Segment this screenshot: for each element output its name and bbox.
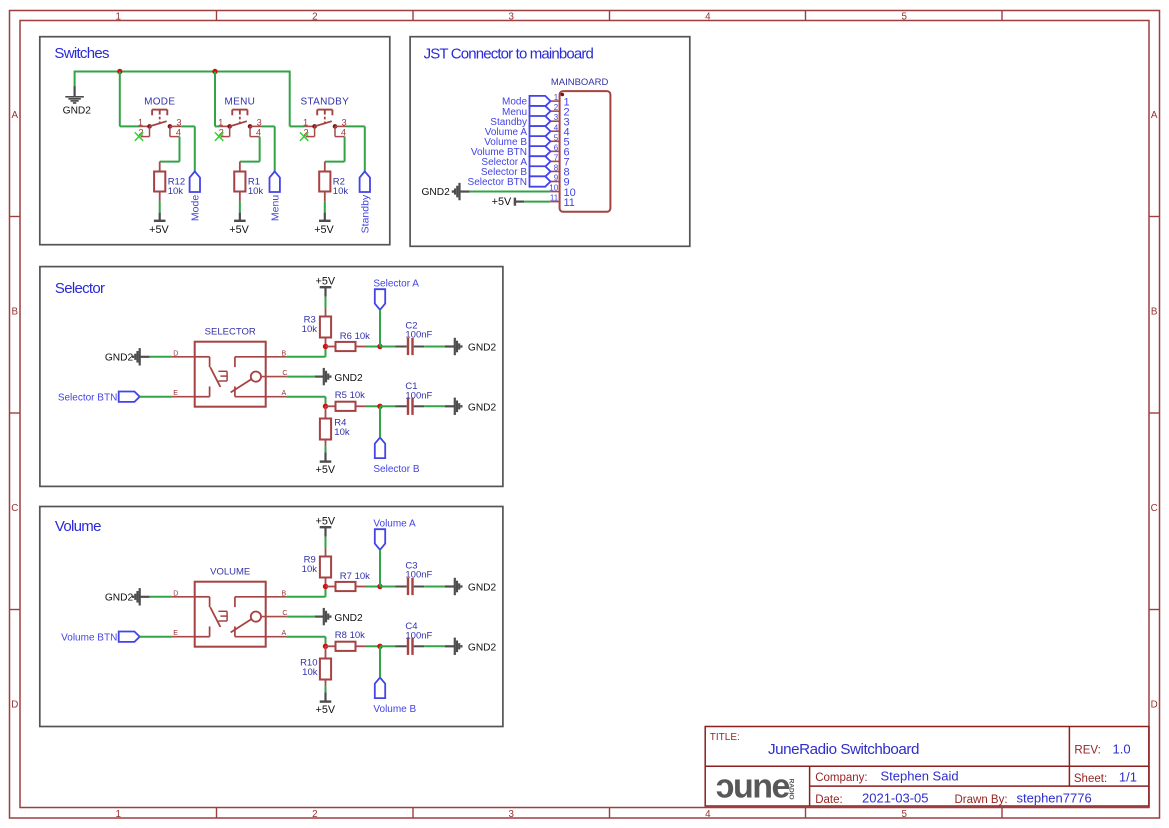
switch MODE button cap <box>152 109 167 111</box>
svg-text:Volume B: Volume B <box>373 704 416 715</box>
svg-text:2: 2 <box>312 809 317 820</box>
svg-text:10: 10 <box>549 184 558 193</box>
power +5V R1 <box>239 213 241 221</box>
section box JST Connector <box>410 37 690 247</box>
wire drop to MODE <box>119 72 121 127</box>
switch STANDBY pin 2 bracket <box>314 126 316 136</box>
net label Selector A flag <box>530 156 551 166</box>
VOLUME pin D line <box>172 596 195 598</box>
wire +5V to R3 <box>325 297 327 308</box>
svg-text:GND2: GND2 <box>105 352 134 363</box>
svg-text:11: 11 <box>550 194 559 203</box>
switch MENU button cap <box>232 109 247 111</box>
SELECTOR internal: wiper lever <box>231 379 252 392</box>
svg-text:Stephen Said: Stephen Said <box>881 769 959 784</box>
net label Mode flag <box>530 96 551 106</box>
svg-text:B: B <box>282 590 287 597</box>
resistor R7 <box>326 586 336 588</box>
wire C1 to GND2 <box>424 405 445 407</box>
VOLUME pin A line <box>266 636 287 638</box>
power +5V bottom of R4 <box>324 452 326 461</box>
junction bottom-right <box>377 644 382 649</box>
svg-text:2: 2 <box>312 11 317 22</box>
VOLUME internal: pin B bracket <box>235 596 266 598</box>
svg-text:GND2: GND2 <box>468 642 497 653</box>
svg-text:+5V: +5V <box>229 224 249 236</box>
svg-text:Date:: Date: <box>815 794 843 806</box>
svg-text:R7 10k: R7 10k <box>340 571 370 582</box>
resistor R9 <box>325 547 327 556</box>
SELECTOR internal: wiper circle <box>251 372 261 382</box>
wire R1 to +5V <box>239 202 241 213</box>
resistor R12 <box>159 162 161 172</box>
resistor R6 <box>326 346 336 348</box>
wire drop to MENU <box>214 72 216 127</box>
svg-text:+5V: +5V <box>316 464 336 476</box>
svg-text:GND2: GND2 <box>334 373 363 384</box>
wire GND2 to VOLUME pin D <box>140 596 150 598</box>
svg-text:REV:: REV: <box>1074 744 1100 756</box>
svg-text:Selector: Selector <box>55 280 105 297</box>
VOLUME internal: push-button contact <box>226 611 228 621</box>
ground GND2 at VOLUME pin C <box>323 608 325 625</box>
wire R12 pin4 to resistor <box>179 137 181 162</box>
svg-text:10k: 10k <box>302 324 318 335</box>
svg-text:JST Connector to mainboard: JST Connector to mainboard <box>424 45 594 62</box>
net label Mode <box>190 171 200 192</box>
svg-text:B: B <box>1151 307 1158 318</box>
net label Volume A flag <box>530 126 551 136</box>
svg-text:10k: 10k <box>168 186 184 197</box>
svg-text:Volume A: Volume A <box>373 518 416 529</box>
ground GND2 at C4 <box>454 638 456 655</box>
junction top-left <box>323 344 328 349</box>
wire R4 to +5V <box>325 446 327 452</box>
title block rev/sheet cell divider <box>1068 727 1070 787</box>
svg-text:Drawn By:: Drawn By: <box>955 794 1008 806</box>
svg-text:E: E <box>173 390 178 397</box>
SELECTOR internal: pin D bracket <box>195 356 210 358</box>
switch MENU pin 4 bracket <box>249 126 251 136</box>
VOLUME internal: push-button lever <box>210 607 220 627</box>
section box Selector <box>40 267 503 487</box>
svg-text:MODE: MODE <box>144 97 175 108</box>
VOLUME pin C line <box>261 616 287 618</box>
frame row ticks left <box>10 216 21 218</box>
ground GND2 at SELECTOR pin C <box>323 368 325 385</box>
power +5V R12 <box>159 213 161 221</box>
resistor R1 <box>239 162 241 172</box>
SELECTOR internal: pin A bracket <box>235 396 266 398</box>
connector pin 11 line <box>550 201 559 203</box>
svg-text:10k: 10k <box>248 186 264 197</box>
junction bottom-left <box>323 404 328 409</box>
SELECTOR pin D line <box>172 356 195 358</box>
ground GND2 at VOLUME pin D <box>139 588 141 605</box>
ground GND2 at C3 <box>454 578 456 595</box>
VOLUME internal: pin A bracket <box>235 636 266 638</box>
svg-text:Selector BTN: Selector BTN <box>58 393 117 404</box>
wire pin3 to Standby flag <box>347 125 365 127</box>
svg-text:5: 5 <box>554 133 559 142</box>
svg-text:5: 5 <box>901 11 907 22</box>
svg-text:2021-03-05: 2021-03-05 <box>862 791 929 806</box>
wire SELECTOR pin A down to junction <box>286 396 325 398</box>
svg-text:A: A <box>282 630 287 637</box>
svg-text:10k: 10k <box>302 667 318 678</box>
switch STANDBY contact dot left <box>312 124 317 129</box>
SELECTOR pin C line <box>261 376 287 378</box>
ground GND2 at C1 <box>454 398 456 415</box>
resistor R8 <box>326 645 336 647</box>
svg-text:GND2: GND2 <box>468 402 497 413</box>
svg-text:Sheet:: Sheet: <box>1074 773 1107 785</box>
svg-text:Selector A: Selector A <box>373 278 419 289</box>
net label Selector BTN flag <box>530 176 551 186</box>
switch MENU pin 1 <box>220 125 230 127</box>
svg-text:Standby: Standby <box>360 194 372 233</box>
svg-text:stephen7776: stephen7776 <box>1017 791 1092 806</box>
svg-text:10k: 10k <box>333 186 349 197</box>
wire R2 to +5V <box>324 202 326 213</box>
svg-text:4: 4 <box>176 127 181 137</box>
capacitor C1 <box>380 405 395 407</box>
net label Selector BTN flag <box>119 392 140 402</box>
switch MODE pin 1 <box>140 125 150 127</box>
svg-text:+5V: +5V <box>316 704 336 716</box>
svg-text:A: A <box>1151 110 1158 121</box>
section box Switches <box>40 37 390 245</box>
switch STANDBY pin 4 bracket <box>334 126 336 136</box>
net label Standby <box>360 171 370 192</box>
svg-text:1.0: 1.0 <box>1113 741 1131 756</box>
svg-text:Selector BTN: Selector BTN <box>468 177 527 188</box>
svg-text:5: 5 <box>901 809 907 820</box>
switch STANDBY actuator stem (dashed) <box>324 110 326 115</box>
VOLUME internal: wiper circle <box>251 612 261 622</box>
wire SELECTOR pin C to GND2 <box>287 376 315 378</box>
switch STANDBY pin 2 no-connect X <box>300 132 308 140</box>
svg-text:+5V: +5V <box>316 275 336 287</box>
svg-text:100nF: 100nF <box>405 390 432 401</box>
SELECTOR internal: push-button contact <box>226 371 228 381</box>
wire Volume A down to junction <box>379 550 381 587</box>
wire R2 pin4 to resistor <box>344 137 346 162</box>
svg-text:Mode: Mode <box>190 195 202 221</box>
junction bottom-left <box>323 644 328 649</box>
SELECTOR pin B line <box>266 356 287 358</box>
wire +5V to R9 <box>325 537 327 548</box>
wire VOLUME pin A down to junction <box>286 636 325 638</box>
svg-text:1: 1 <box>115 809 120 820</box>
wire GND drop left <box>74 71 76 87</box>
svg-text:1/1: 1/1 <box>1119 770 1137 785</box>
svg-text:GND2: GND2 <box>421 187 450 198</box>
SELECTOR pin E line <box>172 396 195 398</box>
svg-text:B: B <box>12 307 19 318</box>
SELECTOR internal: pin B bracket <box>235 356 266 358</box>
ground GND2 at SELECTOR pin D <box>139 348 141 365</box>
net label Menu <box>270 171 280 192</box>
wire pin3 to Mode flag <box>181 125 194 127</box>
june logo <box>716 768 795 806</box>
title block border <box>705 727 1149 807</box>
junction at MODE drop <box>117 69 122 74</box>
wire R12 to +5V <box>159 202 161 213</box>
connector pin 4 line <box>550 130 559 132</box>
switch MODE lever <box>150 121 167 126</box>
connector pin 10 line <box>550 191 559 193</box>
switch MODE pin 3 <box>170 125 182 127</box>
resistor R3 <box>325 307 327 316</box>
svg-text:8: 8 <box>554 163 559 172</box>
junction bottom-right <box>377 404 382 409</box>
svg-text:+5V: +5V <box>492 196 512 208</box>
svg-text:TITLE:: TITLE: <box>710 732 740 743</box>
svg-text:3: 3 <box>257 117 262 127</box>
component SELECTOR body <box>195 342 266 407</box>
svg-text:Selector B: Selector B <box>373 464 419 475</box>
switch MODE contact dot right <box>168 124 173 129</box>
wire C2 to GND2 <box>424 346 445 348</box>
svg-text:1: 1 <box>554 93 559 102</box>
svg-text:4: 4 <box>705 11 711 22</box>
connector pin 1 line <box>550 100 559 102</box>
svg-text:1: 1 <box>115 11 120 22</box>
connector pin 8 line <box>550 170 559 172</box>
junction top-right <box>377 344 382 349</box>
svg-text:10k: 10k <box>334 427 350 438</box>
switch MENU pin 2 no-connect X <box>215 132 223 140</box>
junction at MENU drop <box>212 69 217 74</box>
wire VOLUME pin B up to junction <box>286 596 325 598</box>
switch STANDBY pin 1 <box>305 125 315 127</box>
junction top-left <box>323 584 328 589</box>
svg-text:3: 3 <box>342 117 347 127</box>
wire Selector BTN to SELECTOR pin E <box>140 396 172 398</box>
connector MAINBOARD pin1 marker <box>561 93 565 97</box>
VOLUME pin B line <box>266 596 287 598</box>
svg-text:R5 10k: R5 10k <box>335 390 365 401</box>
wire GND2 to SELECTOR pin D <box>140 356 150 358</box>
svg-text:E: E <box>173 630 178 637</box>
net label Volume BTN flag <box>530 146 551 156</box>
svg-text:3: 3 <box>176 117 181 127</box>
wire SELECTOR pin B up to junction <box>286 356 325 358</box>
wire pin3 to Menu flag <box>262 125 275 127</box>
svg-text:B: B <box>282 350 287 357</box>
svg-text:STANDBY: STANDBY <box>301 97 350 108</box>
svg-text:une: une <box>733 768 790 806</box>
svg-text:Company:: Company: <box>815 772 867 784</box>
frame column ticks top <box>216 11 218 21</box>
svg-text:9: 9 <box>554 174 559 183</box>
VOLUME internal: wiper lever <box>231 619 252 632</box>
svg-text:D: D <box>11 699 18 710</box>
switch MENU lever <box>230 121 247 126</box>
title block logo cell divider <box>809 766 811 806</box>
svg-text:4: 4 <box>341 127 346 137</box>
svg-text:GND2: GND2 <box>334 613 363 624</box>
wire C3 to GND2 <box>424 586 445 588</box>
wire GND2 to pin 10 <box>460 190 470 192</box>
svg-text:C: C <box>11 503 18 514</box>
svg-text:GND2: GND2 <box>63 105 92 116</box>
wire Selector A down to junction <box>379 310 381 347</box>
frame column ticks bottom <box>216 808 218 819</box>
svg-text:Volume: Volume <box>55 518 101 535</box>
connector pin 9 line <box>550 181 559 183</box>
section box Volume <box>40 507 503 727</box>
switch MODE pin 2 bracket <box>149 126 151 136</box>
wire R10 to +5V <box>325 686 327 692</box>
SELECTOR internal: pin E bracket <box>195 396 210 398</box>
resistor R5 <box>326 405 336 407</box>
net label Selector B flag <box>530 166 551 176</box>
svg-text:1: 1 <box>218 117 223 127</box>
svg-text:D: D <box>173 350 178 357</box>
connector pin 7 line <box>550 160 559 162</box>
svg-text:D: D <box>173 590 178 597</box>
switch MENU pin 2 bracket <box>229 126 231 136</box>
ground GND2 switches <box>73 86 75 97</box>
component VOLUME body <box>195 582 266 647</box>
svg-text:3: 3 <box>508 11 514 22</box>
connector pin 5 line <box>550 140 559 142</box>
switch MENU pin 3 <box>250 125 261 127</box>
svg-text:4: 4 <box>705 809 711 820</box>
connector MAINBOARD body <box>560 91 611 212</box>
switch MODE actuator stem (dashed) <box>159 110 161 115</box>
wire R6 to junction <box>366 346 381 348</box>
junction top-right <box>377 584 382 589</box>
svg-text:SELECTOR: SELECTOR <box>205 326 256 337</box>
svg-text:4: 4 <box>256 127 261 137</box>
connector pin 2 line <box>550 110 559 112</box>
title block row divider 2 <box>810 785 1149 787</box>
SELECTOR internal: push-button lever <box>210 367 220 387</box>
net label Volume A flag <box>375 529 385 550</box>
resistor R10 <box>325 646 327 658</box>
switch STANDBY pin 3 <box>335 125 347 127</box>
capacitor C2 <box>380 346 395 348</box>
switch MODE pin 2 no-connect X <box>135 132 143 140</box>
net label Menu flag <box>530 106 551 116</box>
title block row divider 1 <box>705 765 1149 767</box>
svg-text:MAINBOARD: MAINBOARD <box>551 77 609 88</box>
switch STANDBY button cap <box>317 109 332 111</box>
power +5V bottom of R10 <box>324 692 326 701</box>
wire R1 pin4 to resistor <box>259 137 261 162</box>
frame row ticks right <box>1149 216 1160 218</box>
svg-text:100nF: 100nF <box>405 330 432 341</box>
svg-text:10k: 10k <box>302 564 318 575</box>
wire R8 to junction <box>366 645 381 647</box>
switch MODE pin 4 bracket <box>169 126 171 136</box>
ground GND2 JST <box>458 183 460 200</box>
svg-text:3: 3 <box>508 809 514 820</box>
svg-text:MENU: MENU <box>225 97 256 108</box>
svg-text:100nF: 100nF <box>405 630 432 641</box>
svg-text:+5V: +5V <box>316 515 336 527</box>
wire R7 to junction <box>366 586 381 588</box>
capacitor C4 <box>380 645 395 647</box>
VOLUME pin E line <box>172 636 195 638</box>
wire C4 to GND2 <box>424 645 445 647</box>
net label Volume BTN flag <box>119 632 140 642</box>
svg-text:RADIO: RADIO <box>788 779 795 800</box>
svg-text:1: 1 <box>303 117 308 127</box>
SELECTOR pin A line <box>266 396 287 398</box>
wire junction to Selector B <box>379 406 381 437</box>
svg-text:Volume BTN: Volume BTN <box>61 633 117 644</box>
svg-text:GND2: GND2 <box>468 343 497 354</box>
wire GND bus top <box>75 71 290 73</box>
wire +5V to pin 11 <box>515 201 524 203</box>
VOLUME internal: pin E bracket <box>195 636 210 638</box>
svg-text:VOLUME: VOLUME <box>210 566 250 577</box>
svg-text:JuneRadio Switchboard: JuneRadio Switchboard <box>768 741 919 758</box>
svg-text:A: A <box>12 110 19 121</box>
svg-text:+5V: +5V <box>314 224 334 236</box>
resistor R2 <box>324 162 326 172</box>
net label Selector A flag <box>375 289 385 310</box>
power +5V R2 <box>324 213 326 221</box>
svg-text:7: 7 <box>554 153 559 162</box>
svg-text:11: 11 <box>564 197 575 209</box>
svg-text:Menu: Menu <box>270 195 282 221</box>
svg-text:2: 2 <box>554 103 559 112</box>
switch MENU contact dot left <box>227 124 232 129</box>
svg-text:C: C <box>1151 503 1158 514</box>
connector pin 6 line <box>550 150 559 152</box>
resistor R4 <box>325 406 327 418</box>
svg-text:Switches: Switches <box>54 45 109 62</box>
connector pin 3 line <box>550 120 559 122</box>
wire drop to STANDBY <box>289 71 291 127</box>
svg-text:6: 6 <box>554 143 559 152</box>
ground GND2 at C2 <box>454 338 456 355</box>
svg-text:c: c <box>716 768 735 806</box>
wire VOLUME pin C to GND2 <box>287 616 315 618</box>
switch MODE contact dot left <box>147 124 152 129</box>
switch MENU actuator stem (dashed) <box>239 110 241 115</box>
svg-text:GND2: GND2 <box>468 583 497 594</box>
svg-text:3: 3 <box>554 113 559 122</box>
wire R5 to junction <box>366 405 381 407</box>
svg-text:D: D <box>1151 699 1158 710</box>
capacitor C3 <box>380 586 395 588</box>
svg-text:4: 4 <box>554 123 559 132</box>
net label Standby flag <box>530 116 551 126</box>
VOLUME internal: pin D bracket <box>195 596 210 598</box>
switch MENU contact dot right <box>248 124 253 129</box>
switch STANDBY contact dot right <box>333 124 338 129</box>
wire junction to Volume B <box>379 646 381 677</box>
svg-text:R8 10k: R8 10k <box>335 630 365 641</box>
svg-text:100nF: 100nF <box>405 570 432 581</box>
svg-text:A: A <box>282 390 287 397</box>
svg-text:+5V: +5V <box>149 224 169 236</box>
svg-text:GND2: GND2 <box>105 592 134 603</box>
net label Selector B flag <box>375 438 385 459</box>
svg-text:R6 10k: R6 10k <box>340 331 370 342</box>
wire Volume BTN to VOLUME pin E <box>140 636 172 638</box>
svg-text:1: 1 <box>138 117 143 127</box>
switch STANDBY lever <box>315 121 332 126</box>
net label Volume B flag <box>530 136 551 146</box>
net label Volume B flag <box>375 678 385 699</box>
